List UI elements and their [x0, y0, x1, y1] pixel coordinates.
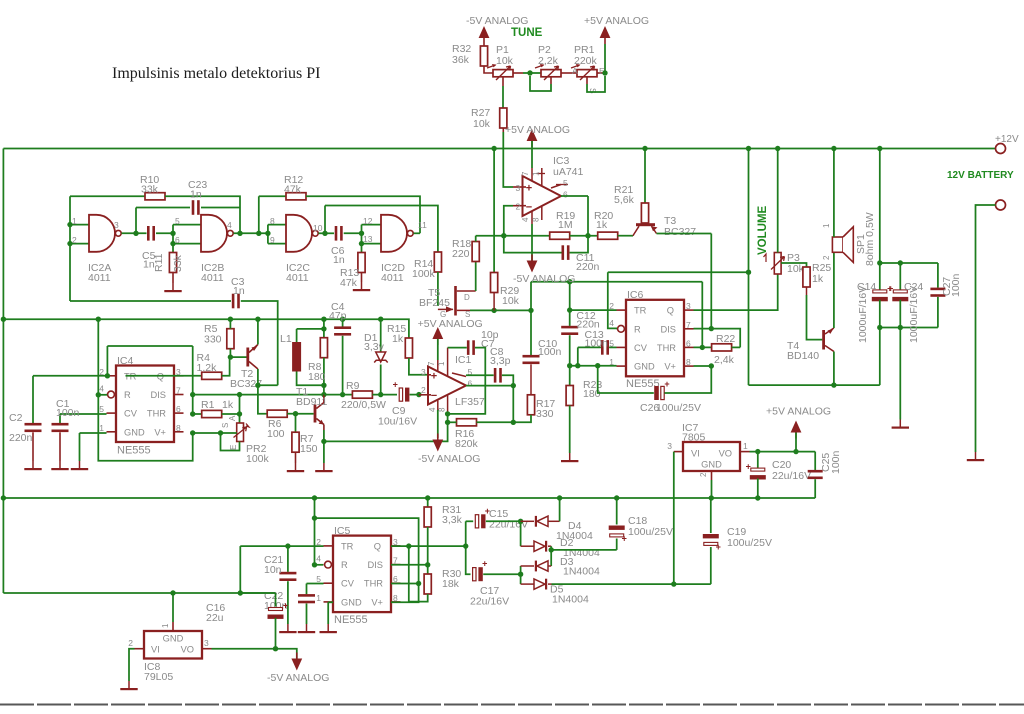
label R20 [594, 210, 613, 222]
label R30 [442, 568, 461, 580]
resistor R7 [292, 414, 299, 463]
junction L1R8 bottom [321, 383, 326, 388]
label C4 value [329, 310, 347, 322]
label D4 value [556, 530, 593, 542]
svg-text:THR: THR [147, 409, 166, 419]
pin 5 IC1 [468, 367, 473, 377]
svg-text:BC327: BC327 [664, 226, 696, 238]
capacitor C3 [232, 294, 240, 309]
wire gate B out to gate C [234, 232, 268, 234]
svg-text:100n: 100n [830, 450, 842, 474]
label R9 value [341, 399, 386, 411]
wire IC4 GND [80, 432, 107, 434]
resistor R15 [405, 338, 428, 375]
polarized capacitor C19 [703, 498, 721, 584]
wire gate C pin 8 [268, 224, 286, 226]
wire gate D pin 13 [362, 243, 382, 245]
label T5 value [419, 297, 450, 309]
ground R7 [287, 463, 304, 472]
svg-text:10n: 10n [264, 564, 282, 576]
wire R1 to PR2 [239, 395, 241, 423]
wire IC6 TR [570, 309, 617, 311]
svg-text:100u/25V: 100u/25V [727, 537, 772, 549]
wire pin4 to -5V [437, 410, 439, 438]
label IC1 value [455, 396, 485, 408]
capacitor C1 [52, 414, 69, 461]
label R21 [614, 184, 633, 196]
resistor R16 [457, 419, 477, 426]
junction C20 [755, 449, 760, 454]
wire to R bubble IC5 [315, 564, 324, 566]
svg-text:CV: CV [124, 409, 138, 419]
svg-text:THR: THR [657, 343, 676, 353]
junction Q C15 C17 [463, 543, 468, 548]
pin label T5 G [440, 310, 446, 319]
wire gate C pin 9 [268, 243, 286, 245]
label IC6 value [626, 378, 660, 390]
supply arrow +5V IC3 [527, 129, 538, 147]
svg-text:E: E [229, 445, 238, 450]
wire rail to cap bank [879, 149, 881, 264]
label D2 [560, 537, 574, 549]
label IC5 [334, 525, 351, 537]
wire R10 to gate B output [165, 196, 240, 233]
wire R20 to T3 [618, 235, 633, 237]
label C3 value [233, 285, 245, 297]
IC IC4 NE555 [99, 366, 183, 443]
svg-text:DIS: DIS [661, 324, 677, 334]
label -5V ANALOG IC3 [513, 273, 575, 285]
svg-text:100n: 100n [56, 407, 80, 419]
svg-text:8: 8 [532, 217, 541, 222]
junction gate B pin6 [170, 241, 175, 246]
junction IC5 R pin [312, 562, 317, 567]
junction L1R8 top [321, 326, 326, 331]
svg-text:100u/25V: 100u/25V [656, 402, 701, 414]
label P2 value [538, 55, 559, 67]
label C9 value [378, 416, 417, 428]
svg-text:Q: Q [667, 306, 674, 316]
junction R29 source [491, 308, 496, 313]
junction IC6 DIS [709, 326, 714, 331]
wire R14 to T5 gate [437, 272, 439, 306]
pin 5 IC2B [175, 216, 180, 226]
junction feedback B [237, 231, 242, 236]
svg-text:R: R [341, 560, 348, 570]
svg-text:7: 7 [521, 171, 530, 176]
svg-text:DIS: DIS [151, 390, 167, 400]
svg-text:+5V ANALOG: +5V ANALOG [584, 15, 649, 27]
wire output to R16 line [512, 386, 514, 423]
label R10 value [141, 184, 159, 196]
wire gate B input stem [172, 225, 174, 253]
wire C23 right [201, 207, 240, 209]
pin 1 IC2A [72, 216, 77, 226]
wire C13 to CV [609, 346, 616, 348]
label C8 value [490, 355, 511, 367]
wire gate A pin 2 [70, 243, 89, 245]
wire C11 right to output [570, 196, 588, 253]
wire IC8 GND up [172, 593, 174, 622]
label P2 [538, 44, 551, 56]
label R5 value [204, 334, 222, 346]
wire R6 to base node [287, 413, 295, 415]
label R16 [455, 428, 474, 440]
wire rail to volume node [748, 149, 750, 273]
wire to R9 [324, 394, 353, 396]
svg-text:10k: 10k [787, 263, 805, 275]
pin 5 IC3 [563, 178, 568, 188]
wire +5V arrow to IC3 pin7 [531, 141, 533, 168]
svg-text:1n: 1n [190, 189, 202, 201]
wire TR chain up [106, 346, 108, 376]
wire IC4 TR left [33, 375, 107, 377]
svg-text:10k: 10k [473, 118, 491, 130]
wire R5 bottom [229, 349, 231, 357]
wire T4 collector down [833, 352, 835, 386]
svg-text:+: + [664, 379, 669, 389]
label R23 value [583, 388, 601, 400]
svg-text:BD140: BD140 [787, 350, 819, 362]
label C23 [188, 179, 207, 191]
svg-text:S: S [588, 88, 598, 94]
potentiometer P3 [764, 253, 785, 275]
wire to R bubble [98, 394, 107, 396]
label IC6 [627, 289, 644, 301]
ground C22 [298, 624, 315, 633]
capacitor C23 [192, 200, 200, 215]
label R32 [452, 43, 471, 55]
label +5V ANALOG IC3 [505, 124, 570, 136]
wire T2 collector to C3 line [258, 384, 278, 386]
svg-text:VO: VO [181, 645, 194, 655]
svg-text:79L05: 79L05 [144, 671, 173, 683]
pin 2 IC3 [516, 202, 521, 212]
wire rail to SP1 [833, 149, 835, 238]
svg-text:+: + [283, 600, 288, 610]
supply arrow +5V IC1 [432, 327, 443, 345]
wire D3D5 left stem [520, 566, 522, 584]
pin 4 IC1 [428, 407, 437, 412]
label PR2 [246, 443, 267, 455]
op-amp IC3 uA741 [513, 168, 568, 224]
wire C18 bottom link [551, 549, 617, 551]
svg-text:1: 1 [99, 423, 104, 433]
svg-text:TUNE: TUNE [511, 27, 543, 39]
junction C10 source [528, 308, 533, 313]
label R20 value [596, 219, 608, 231]
wire IC3 pin2 down [504, 206, 513, 236]
svg-text:12: 12 [363, 216, 373, 226]
svg-text:10u/16V: 10u/16V [378, 416, 417, 428]
svg-text:-5V ANALOG: -5V ANALOG [466, 15, 528, 27]
trimmer PR1 [571, 64, 605, 84]
svg-text:GND: GND [341, 597, 362, 607]
pin label PR1 A [572, 66, 578, 76]
wire T1 emitter down [323, 430, 325, 441]
svg-text:+: + [526, 183, 532, 195]
svg-text:6: 6 [563, 190, 568, 200]
svg-text:CV: CV [341, 579, 355, 589]
junction T2 collector [255, 383, 260, 388]
label R18 value [452, 248, 470, 260]
ground R23 [561, 453, 578, 462]
svg-text:1n: 1n [233, 285, 245, 297]
svg-text:8ohm 0,5W: 8ohm 0,5W [864, 212, 876, 266]
junction IC4 V+ [190, 430, 195, 435]
label R8 [308, 361, 322, 373]
svg-text:220n: 220n [576, 261, 600, 273]
wire T1 emitter to R16 [324, 422, 448, 441]
svg-text:4011: 4011 [88, 272, 111, 284]
label C2 [9, 412, 23, 424]
svg-text:4: 4 [521, 217, 530, 222]
wire T2 emitter up [257, 319, 259, 344]
polarized capacitor C26 [654, 379, 669, 400]
svg-text:8: 8 [176, 423, 181, 433]
svg-text:R9: R9 [346, 380, 360, 392]
pin 3 IC3 [516, 183, 521, 193]
svg-text:+: + [431, 371, 437, 383]
transistor T5 BF245 JFET [438, 286, 476, 316]
wire D2 D3 right stem [550, 546, 552, 566]
wire to C15 [466, 520, 474, 522]
junction gate A pin1 [67, 222, 72, 227]
wire IC4 GND down [79, 433, 81, 461]
wire IC8 VI down [129, 649, 135, 681]
wire to R14 [325, 206, 438, 253]
pin 4 IC3 [521, 217, 530, 222]
label R4 value [197, 362, 218, 374]
wire link to THR [701, 282, 703, 348]
svg-text:1k: 1k [392, 333, 404, 345]
svg-text:+: + [482, 559, 487, 569]
junction bus L1R8 [321, 317, 326, 322]
label C5 [142, 250, 156, 262]
svg-text:1N4004: 1N4004 [563, 566, 600, 578]
svg-text:G: G [440, 310, 446, 319]
svg-text:4011: 4011 [201, 272, 224, 284]
svg-text:IC6: IC6 [627, 289, 644, 301]
junction rail SP1 [831, 146, 836, 151]
label C7 [481, 338, 495, 350]
label R7 value [300, 443, 318, 455]
svg-text:4: 4 [609, 318, 614, 328]
label C24 value [908, 286, 920, 343]
label T2 value [230, 378, 262, 390]
svg-text:6: 6 [686, 338, 691, 348]
svg-text:+: + [887, 283, 892, 293]
wire P1 wiper to R27 [502, 86, 504, 108]
svg-text:100: 100 [267, 428, 285, 440]
label R4 [197, 352, 211, 364]
junction pin8 ring [445, 411, 450, 416]
svg-text:DIS: DIS [368, 560, 384, 570]
label C15 value [489, 519, 528, 531]
capacitor C13 [601, 340, 609, 355]
label T1 [296, 386, 308, 398]
junction R12 drop [256, 231, 261, 236]
label IC5 value [334, 614, 368, 626]
label T4 [787, 340, 799, 352]
label C26 [640, 402, 659, 414]
wire C26 left [598, 366, 654, 393]
wire +5V analog bus [3, 319, 409, 338]
pin label PR1 S [588, 88, 598, 94]
label R19 value [558, 219, 573, 231]
ground IC8 VI [120, 681, 137, 690]
junction bus T2 emitter [255, 317, 260, 322]
pin 2 IC8 [128, 638, 133, 648]
junction output C8 [511, 383, 516, 388]
label C18 value [628, 526, 673, 538]
svg-text:CV: CV [634, 343, 648, 353]
polarized capacitor C9 [393, 380, 410, 402]
wire gate C input stem [267, 225, 269, 244]
pin 3 IC1 [421, 367, 426, 377]
wire battery minus [976, 205, 996, 452]
wire IC5 CV [307, 583, 324, 585]
label C12 [576, 310, 595, 322]
junction bus R5 [228, 317, 233, 322]
supply arrow +5V analog out [791, 421, 802, 439]
svg-text:2,2k: 2,2k [538, 55, 559, 67]
svg-text:VO: VO [719, 449, 732, 459]
svg-text:VI: VI [691, 449, 700, 459]
wire R22 right [732, 346, 741, 348]
polarized capacitor C17 [473, 559, 488, 582]
resistor R25 [803, 267, 810, 295]
wire ring to R16 node [447, 414, 449, 422]
junction rail P3 [775, 146, 780, 151]
wire THR to R22 [694, 346, 713, 348]
wire Q down to C17 [466, 546, 471, 574]
diode D3 1N4004 [521, 561, 552, 572]
capacitor C7 [467, 340, 475, 355]
svg-text:22u/16V: 22u/16V [470, 596, 509, 608]
svg-text:+: + [622, 534, 627, 544]
wire IC3 pin4 to -5V [531, 224, 533, 261]
inductor L1 search coil [292, 329, 324, 385]
junction P2 wiper tie [527, 70, 532, 75]
wire IC7 VO line [750, 451, 816, 453]
label C27 [941, 277, 953, 296]
wire V+ to PR2 wiper [193, 432, 221, 434]
pin 4 IC2B [227, 220, 232, 230]
ground C2 [24, 461, 41, 470]
wire cap bank bottom [880, 327, 938, 329]
wire IC6 Q to P3 [694, 274, 778, 310]
junction rail R21 [642, 146, 647, 151]
svg-text:L1: L1 [280, 333, 292, 345]
label C11 value [576, 261, 600, 273]
resistor R14 [434, 252, 441, 272]
capacitor C11 [562, 245, 570, 260]
wire IC6 V+ lead [694, 365, 712, 367]
wire +12V rail [3, 148, 995, 150]
wire R19 to R20 [570, 235, 598, 237]
wire T5 drain to R18 [475, 262, 477, 292]
resistor R18 [472, 236, 479, 262]
label R6 value [267, 428, 285, 440]
pin 2 IC7 [699, 472, 708, 477]
svg-text:13: 13 [363, 234, 373, 244]
wire C9 to IC1 [410, 394, 419, 396]
label C13 value [585, 338, 609, 350]
trimmer PR2 [234, 423, 250, 442]
pin label PR2 A [228, 415, 237, 421]
label IC3 value [553, 166, 584, 178]
supply arrow -5V IC1 [432, 434, 443, 452]
svg-text:4: 4 [99, 384, 104, 394]
zener diode D1 [374, 319, 388, 394]
svg-text:BD911: BD911 [296, 396, 327, 408]
wire IC1 output [466, 385, 513, 387]
svg-text:+5V ANALOG: +5V ANALOG [505, 124, 570, 136]
label D5 [550, 584, 564, 596]
label C2 value [9, 432, 33, 444]
svg-text:22u: 22u [206, 612, 224, 624]
junction C4 bottom [340, 392, 345, 397]
wire P1 to P2 [523, 72, 541, 74]
wire T4 emitter to SP1 [833, 252, 835, 328]
label D5 value [552, 594, 589, 606]
svg-text:4: 4 [227, 220, 232, 230]
svg-text:C18: C18 [628, 515, 647, 527]
label R25 [812, 262, 831, 274]
svg-text:VI: VI [151, 645, 160, 655]
label IC1 [455, 354, 472, 366]
wire TR chain down [192, 346, 194, 414]
junction gate D pin13 [359, 241, 364, 246]
svg-text:220: 220 [452, 248, 470, 260]
svg-text:R: R [124, 390, 131, 400]
wire +5V arrow stem [795, 433, 797, 452]
wire IC6 GND line [570, 365, 617, 367]
wire C11 left [504, 236, 562, 253]
wire R12 to gate D output [306, 196, 420, 233]
wire pin5 to C8 [466, 374, 494, 376]
svg-text:V+: V+ [664, 362, 676, 372]
wire Q up to C15 [465, 521, 467, 546]
nand gate IC2C [286, 215, 318, 252]
junction T1 emitter [321, 439, 326, 444]
svg-text:TR: TR [341, 541, 354, 551]
label C6 value [333, 254, 345, 266]
wire C3 left [70, 300, 231, 302]
svg-text:GND: GND [701, 460, 722, 470]
wire DIS node to T1 [240, 394, 324, 396]
label R11 value [172, 254, 184, 272]
svg-text:2: 2 [421, 385, 426, 395]
junction IC6 V+ [709, 363, 714, 368]
svg-text:NE555: NE555 [117, 445, 151, 457]
svg-text:1N4004: 1N4004 [552, 594, 589, 606]
label +5V ANALOG out [766, 406, 831, 418]
svg-text:4011: 4011 [286, 272, 309, 284]
junction IC7 GND bus [709, 495, 714, 500]
label VOLUME [757, 205, 769, 255]
label PR1 [574, 44, 595, 56]
resistor R11 [169, 253, 176, 284]
wire IC7 VI down [673, 452, 675, 584]
svg-text:3: 3 [667, 441, 672, 451]
pin 11 IC2D [418, 220, 427, 230]
label D4 [568, 520, 582, 532]
resistor R6 [267, 410, 287, 417]
wire bus to IC5 R pin [314, 498, 316, 565]
svg-text:12V BATTERY: 12V BATTERY [947, 170, 1014, 181]
